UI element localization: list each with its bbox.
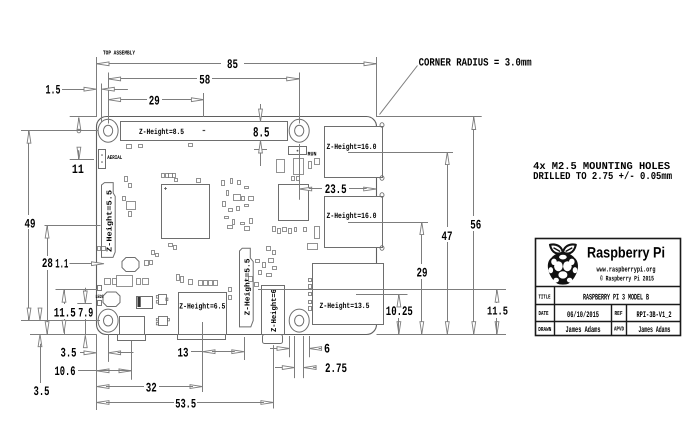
svg-text:TITLE: TITLE <box>539 293 551 300</box>
svg-text:85: 85 <box>227 57 238 72</box>
dimension 2.75 arrows <box>275 367 285 369</box>
HDMI overhang lip <box>178 335 226 340</box>
svg-text:Z-Height=16.0: Z-Height=16.0 <box>327 143 377 152</box>
RUN header <box>289 147 307 155</box>
svg-text:1.1: 1.1 <box>55 257 68 272</box>
dimension 28 line <box>47 226 49 256</box>
title block col divider labels <box>554 287 556 336</box>
svg-text:RPI-3B-V1_2: RPI-3B-V1_2 <box>637 310 672 320</box>
extension ethernet center <box>356 294 408 296</box>
USB1 mounting pin circles <box>380 123 384 128</box>
svg-text:2.75: 2.75 <box>325 361 347 376</box>
transistor Q1 <box>159 295 167 305</box>
USB/ethernet controller U2 LAN9514 <box>279 185 309 221</box>
mounting hole H2 top-right <box>289 119 309 142</box>
svg-text:James Adams: James Adams <box>638 325 670 335</box>
title block frame <box>536 239 681 336</box>
svg-text:RASPBERRY PI 3 MODEL B: RASPBERRY PI 3 MODEL B <box>583 293 649 303</box>
svg-text:DATE: DATE <box>539 310 549 317</box>
svg-text:CORNER RADIUS = 3.0mm: CORNER RADIUS = 3.0mm <box>419 57 532 69</box>
svg-text:29: 29 <box>417 266 428 281</box>
svg-text:APVD: APVD <box>614 326 624 333</box>
dimension 11.5 right line <box>496 290 498 303</box>
dimension 32 line <box>97 385 110 389</box>
tick below header marker <box>254 149 267 151</box>
dimension 6 arrows <box>270 348 280 350</box>
HDMI connector J7 <box>179 293 227 335</box>
dimension 3.5 vertical line <box>40 308 42 311</box>
audio jack J1 <box>262 286 285 335</box>
ethernet pad column <box>309 279 312 282</box>
svg-text:11.5: 11.5 <box>54 306 76 321</box>
LED D2 PWR <box>98 301 102 306</box>
connector centerline y11.5 left segment <box>56 289 98 291</box>
board outline PCB 85x56 <box>97 117 377 335</box>
extension board top edge right <box>377 116 482 118</box>
dimension 49 line <box>28 131 30 215</box>
capacitor C2 octagon <box>103 292 120 307</box>
svg-text:23.5: 23.5 <box>325 182 347 197</box>
svg-text:28: 28 <box>42 256 53 271</box>
svg-text:3.5: 3.5 <box>61 346 77 361</box>
dimension 29 line <box>108 99 147 101</box>
svg-text:47: 47 <box>442 229 453 244</box>
transistor Q2 <box>159 317 168 326</box>
extension line 7.9 <box>77 303 92 305</box>
leader corner radius <box>380 66 418 115</box>
tick 29-dim endpoint in header <box>203 130 206 132</box>
svg-text:DRAWN: DRAWN <box>538 326 551 333</box>
extension line y160 aerial <box>70 159 94 161</box>
USB2 mounting pin circles <box>380 193 384 198</box>
dimension 23.5 line <box>299 187 312 191</box>
svg-text:8.5: 8.5 <box>253 126 270 142</box>
capacitor C1 octagon <box>122 258 139 272</box>
svg-text:Raspberry Pi: Raspberry Pi <box>587 245 665 262</box>
dimension 10.25 line <box>398 294 400 302</box>
svg-text:32: 32 <box>146 380 157 395</box>
svg-text:49: 49 <box>25 216 36 231</box>
title block col divider ref <box>611 305 613 336</box>
connector centerline y11.5 right segment <box>258 289 506 291</box>
svg-text:AERIAL: AERIAL <box>107 154 123 161</box>
svg-text:REF: REF <box>615 310 623 317</box>
extension hole center line bottom-left <box>21 320 100 322</box>
extension USB2 center <box>348 222 428 224</box>
dimension 58 line <box>108 78 197 80</box>
svg-text:10.6: 10.6 <box>55 364 76 379</box>
dimension 29 right line <box>421 222 423 264</box>
dimension 11 line <box>78 118 80 127</box>
dimension 53.5 line <box>97 401 110 405</box>
dimension 13 line <box>191 351 203 353</box>
svg-text:10.25: 10.25 <box>386 304 413 319</box>
svg-text:Z-Height=13.5: Z-Height=13.5 <box>320 302 370 311</box>
Raspberry Pi logo <box>548 244 578 284</box>
svg-text:Z-Height=6: Z-Height=6 <box>270 289 279 332</box>
extension hole H3 center <box>108 334 110 362</box>
svg-text:11.5: 11.5 <box>487 304 508 318</box>
svg-text:29: 29 <box>149 93 160 108</box>
svg-text:11: 11 <box>72 162 84 177</box>
svg-text:LEDS: LEDS <box>96 294 104 300</box>
title block row divider 1 <box>536 286 680 288</box>
svg-text:Z-Height=5.5: Z-Height=5.5 <box>243 258 252 316</box>
title block row divider 2 <box>536 304 680 306</box>
svg-text:58: 58 <box>199 73 210 88</box>
mark circle at hole line crossing <box>77 129 81 133</box>
svg-text:6: 6 <box>324 342 330 357</box>
dimension 3.5 bottom arrows <box>80 352 87 354</box>
svg-text:56: 56 <box>470 218 481 233</box>
extension audio center <box>273 345 275 408</box>
audio jack barrel <box>263 335 283 344</box>
dimension 85 line <box>97 63 222 65</box>
LED D1 ACT <box>98 286 102 291</box>
svg-text:3.5: 3.5 <box>34 384 50 399</box>
USB-A stacked port J4 <box>325 197 383 248</box>
extension line right edge top <box>376 57 378 117</box>
GPIO header J8 <box>121 122 288 141</box>
svg-text:Z-Height=16.0: Z-Height=16.0 <box>327 212 377 221</box>
extension micro-USB center <box>131 341 133 380</box>
USB-A stacked port J5 <box>325 127 383 178</box>
DSI display connector J3 <box>102 183 116 258</box>
svg-text:Z-Height=8.5: Z-Height=8.5 <box>139 128 184 137</box>
extension board bottom edge left <box>30 334 97 336</box>
svg-text:13: 13 <box>178 345 189 360</box>
small passive components scattered <box>127 145 132 149</box>
dimension 47 line <box>447 152 449 227</box>
marker arrows header height <box>260 104 262 112</box>
title block row divider 3 <box>536 321 680 323</box>
svg-text:www.raspberrypi.org: www.raspberrypi.org <box>597 265 656 274</box>
extension lines hole H4 pads <box>289 336 291 357</box>
capacitor C3 with polarity bar <box>137 297 153 309</box>
svg-text:© Raspberry Pi 2015: © Raspberry Pi 2015 <box>600 274 654 283</box>
svg-text:TOP ASSEMBLY: TOP ASSEMBLY <box>103 50 135 57</box>
mounting hole H3 bottom-left <box>98 309 118 332</box>
svg-text:DRILLED TO 2.75 +/- 0.05mm: DRILLED TO 2.75 +/- 0.05mm <box>533 171 672 183</box>
svg-text:06/10/2015: 06/10/2015 <box>567 310 599 320</box>
extension line hole right <box>299 73 301 124</box>
title block col divider ref2 <box>626 305 628 336</box>
dimension 1.5 arrows <box>62 89 84 91</box>
extension line hole left <box>108 73 110 124</box>
extension line GPIO left <box>101 84 103 122</box>
extension line header center <box>203 93 205 117</box>
dimension 1.1 leader <box>70 263 95 265</box>
extension top edge left short <box>70 116 97 118</box>
svg-text:53.5: 53.5 <box>175 397 196 412</box>
extension USB1 center <box>348 152 453 154</box>
dimension 56 line <box>473 117 475 216</box>
svg-text:James Adams: James Adams <box>566 325 601 335</box>
extension hole H2 down <box>299 144 301 200</box>
svg-text:1.5: 1.5 <box>46 83 61 98</box>
svg-text:Z-Height=5.5: Z-Height=5.5 <box>105 189 114 252</box>
extension HDMI center <box>202 322 204 392</box>
CSI camera connector J2 <box>240 248 254 327</box>
extension board bottom edge right <box>377 334 507 336</box>
svg-text:RUN: RUN <box>308 150 317 157</box>
extension DSI center line <box>45 225 101 227</box>
extension hole center line top-left <box>21 130 98 132</box>
mounting hole H1 top-left <box>98 119 118 142</box>
dimension 11.5 left line <box>64 290 66 304</box>
dimension 7.9 line <box>85 288 87 294</box>
svg-text:7.9: 7.9 <box>78 306 93 321</box>
dimension 10.6 line <box>78 370 97 372</box>
mounting hole H4 bottom-right <box>289 309 309 332</box>
micro-USB overhang lip <box>118 335 146 341</box>
svg-text:Z-Height=6.5: Z-Height=6.5 <box>179 302 225 311</box>
ethernet jack J6 <box>313 264 384 325</box>
extension line left edge top <box>96 57 98 117</box>
extension CSI center <box>244 337 246 360</box>
micro-USB power connector J9 <box>120 317 145 335</box>
antenna AERIAL <box>99 150 106 169</box>
SoC chip U1 BCM2837 <box>162 185 210 239</box>
extension board left edge bottom <box>96 334 98 410</box>
